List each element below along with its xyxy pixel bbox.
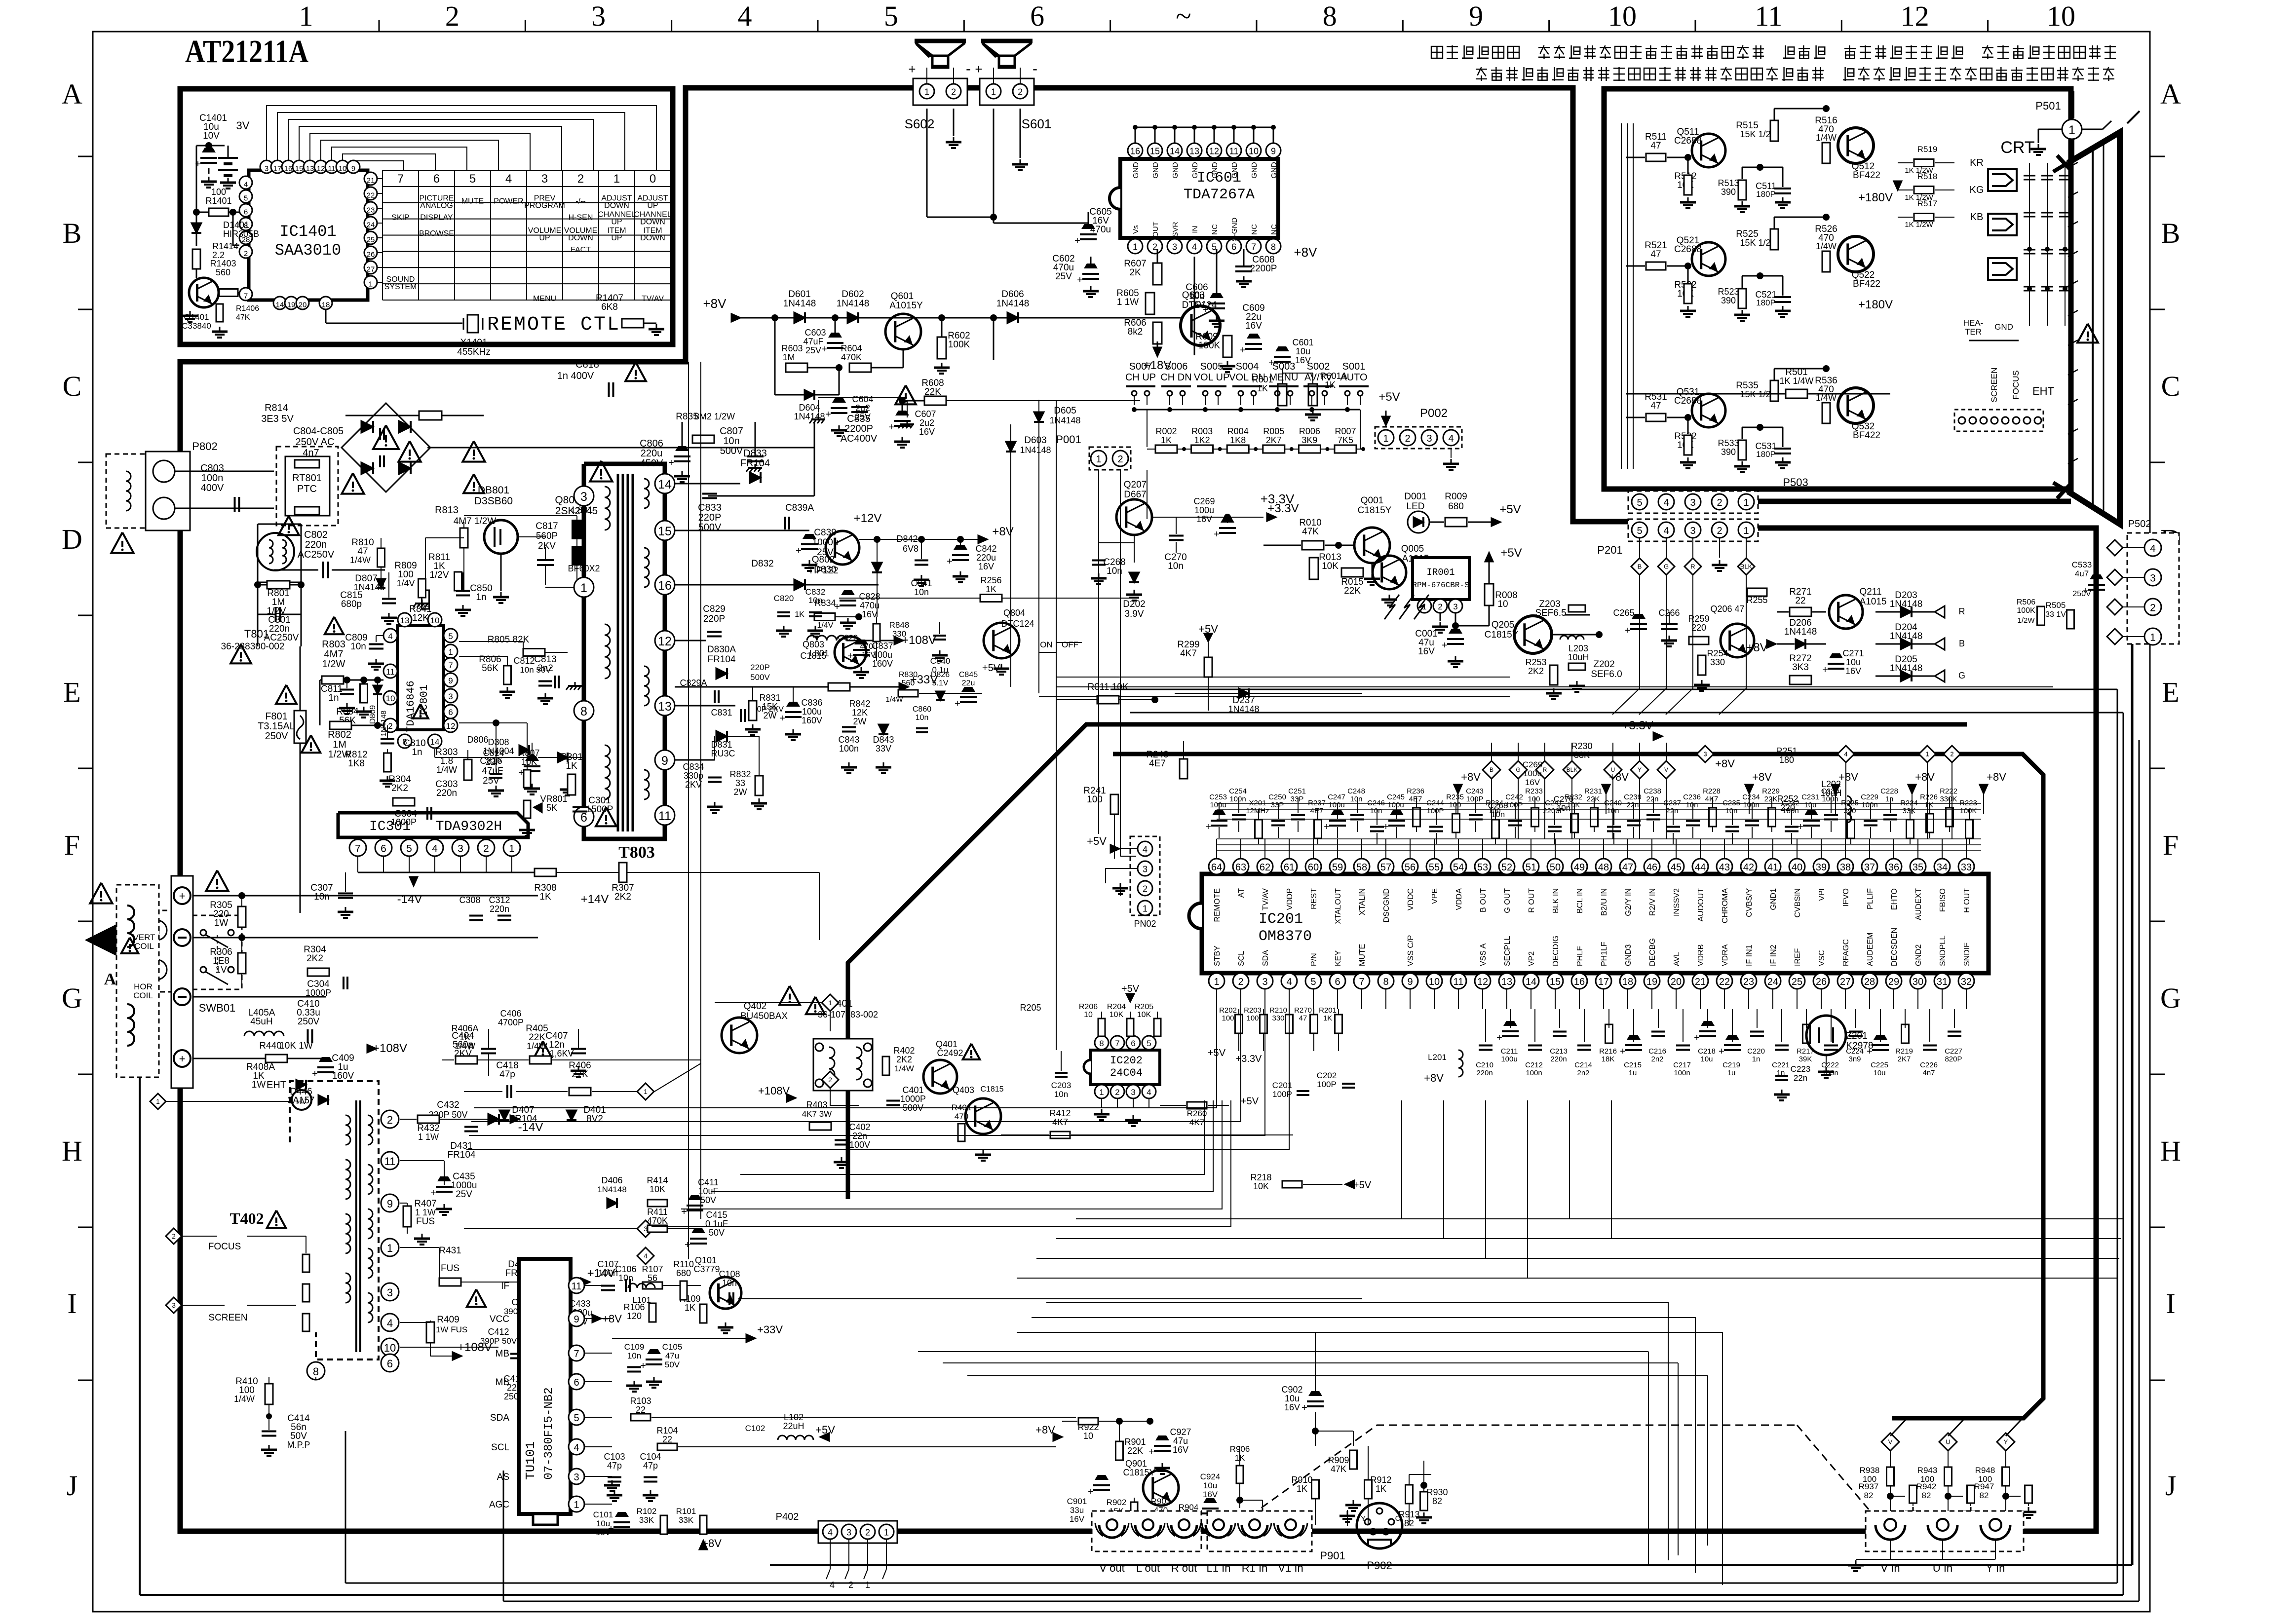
svg-text:VP2: VP2 (1528, 951, 1536, 966)
svg-text:100u: 100u (1328, 801, 1344, 809)
svg-text:10n: 10n (722, 1278, 737, 1288)
svg-text:C: C (1395, 1514, 1401, 1523)
svg-text:C412: C412 (488, 1327, 509, 1337)
svg-text:13: 13 (1189, 147, 1199, 156)
svg-text:FACT: FACT (571, 246, 591, 254)
svg-text:C253: C253 (1209, 793, 1227, 801)
svg-text:D603: D603 (1024, 435, 1046, 446)
svg-text:Q101: Q101 (695, 1255, 717, 1265)
svg-text:1K8: 1K8 (1230, 435, 1246, 445)
svg-text:FUS: FUS (416, 1216, 435, 1227)
svg-text:10: 10 (1429, 977, 1440, 987)
svg-text:4M7 1/2W: 4M7 1/2W (454, 516, 497, 527)
svg-text:48: 48 (1598, 862, 1609, 873)
svg-text:13: 13 (1501, 977, 1512, 987)
svg-text:H: H (2160, 1135, 2181, 1167)
svg-text:A1015: A1015 (1860, 597, 1887, 607)
svg-text:1: 1 (1214, 977, 1219, 987)
svg-text:BLK IN: BLK IN (1552, 888, 1560, 913)
svg-text:2: 2 (1115, 1088, 1119, 1097)
svg-text:CVBSIN: CVBSIN (1794, 888, 1802, 918)
svg-text:2: 2 (483, 843, 489, 855)
svg-text:R2/V IN: R2/V IN (1648, 888, 1657, 916)
svg-text:J: J (67, 1470, 78, 1502)
svg-text:+8V: +8V (1609, 771, 1629, 783)
svg-text:4700P: 4700P (498, 1018, 524, 1027)
svg-text:7: 7 (244, 292, 248, 301)
svg-text:C225: C225 (1871, 1061, 1888, 1069)
svg-text:R930: R930 (1426, 1487, 1448, 1497)
svg-text:R007: R007 (1335, 426, 1356, 436)
svg-text:S601: S601 (1022, 116, 1052, 131)
svg-text:D806: D806 (467, 735, 488, 745)
svg-text:1000P: 1000P (391, 817, 417, 827)
svg-text:TDA9302H: TDA9302H (436, 819, 502, 834)
svg-text:1n: 1n (1752, 1055, 1760, 1063)
svg-text:DECDIG: DECDIG (1552, 936, 1560, 966)
svg-text:S003: S003 (1272, 361, 1296, 372)
svg-text:100u: 100u (1501, 1055, 1517, 1063)
svg-text:2200P: 2200P (1250, 264, 1277, 274)
svg-text:C105: C105 (662, 1342, 683, 1352)
svg-text:8V2: 8V2 (586, 1114, 603, 1124)
svg-text:SCREEN: SCREEN (1990, 368, 1999, 403)
svg-text:1 1W: 1 1W (418, 1132, 439, 1142)
svg-text:100P: 100P (1505, 801, 1523, 809)
svg-text:DOWN: DOWN (640, 234, 665, 242)
svg-text:D601: D601 (788, 289, 810, 300)
svg-text:1/4W: 1/4W (436, 765, 457, 775)
svg-text:560: 560 (216, 267, 230, 277)
svg-text:2K2: 2K2 (391, 783, 408, 793)
svg-text:3: 3 (2150, 573, 2156, 584)
svg-text:P001: P001 (1056, 433, 1081, 446)
svg-text:VSS C/P: VSS C/P (1407, 935, 1415, 966)
svg-text:2K2: 2K2 (614, 892, 631, 902)
svg-text:C804-C805: C804-C805 (293, 426, 344, 437)
svg-text:24: 24 (367, 221, 375, 229)
svg-text:V In: V In (1880, 1562, 1900, 1574)
svg-text:100K: 100K (2017, 606, 2035, 615)
svg-text:50V: 50V (665, 1360, 680, 1369)
svg-text:BLK: BLK (1740, 563, 1753, 570)
svg-text:1u: 1u (1727, 1069, 1736, 1077)
svg-text:2W: 2W (853, 717, 867, 726)
svg-text:VSS A: VSS A (1479, 943, 1488, 966)
svg-text:220u: 220u (641, 448, 663, 459)
svg-text:1K: 1K (539, 892, 551, 902)
svg-text:12MHz: 12MHz (1246, 807, 1269, 815)
svg-text:47u: 47u (1173, 1436, 1188, 1446)
svg-text:22K: 22K (1127, 1446, 1143, 1456)
svg-text:1: 1 (613, 172, 620, 186)
svg-text:SNDPLL: SNDPLL (1939, 936, 1947, 966)
svg-text:+5V: +5V (1378, 390, 1400, 404)
svg-text:+: + (681, 1207, 687, 1217)
svg-text:220n: 220n (436, 788, 457, 798)
svg-text:11: 11 (658, 809, 671, 823)
svg-text:22K: 22K (1764, 795, 1778, 803)
svg-text:HV: HV (296, 1097, 307, 1106)
svg-text:680p: 680p (341, 599, 362, 609)
svg-text:GND1: GND1 (1769, 888, 1778, 910)
svg-text:180: 180 (1779, 755, 1794, 765)
svg-text:AGC: AGC (489, 1500, 509, 1510)
svg-text:1: 1 (1925, 751, 1929, 758)
svg-text:33: 33 (735, 778, 745, 788)
svg-text:+: + (1205, 822, 1211, 832)
svg-text:33 1V: 33 1V (2045, 610, 2066, 619)
svg-text:HOR: HOR (134, 982, 153, 991)
svg-text:R256: R256 (980, 575, 1001, 585)
svg-text:+5V: +5V (1087, 835, 1107, 847)
svg-text:22K: 22K (1344, 586, 1361, 596)
svg-text:1K2: 1K2 (1194, 435, 1210, 445)
svg-text:7K5: 7K5 (1338, 435, 1353, 445)
svg-text:VOL DN: VOL DN (1229, 372, 1265, 383)
svg-text:10K 1W: 10K 1W (279, 1041, 313, 1051)
svg-text:4n7: 4n7 (1922, 1069, 1935, 1077)
svg-text:470: 470 (955, 1112, 968, 1121)
svg-text:33K: 33K (1574, 750, 1590, 760)
svg-text:16: 16 (658, 579, 672, 593)
svg-text:10n: 10n (1350, 795, 1362, 803)
svg-text:G: G (1516, 766, 1520, 773)
svg-text:16: 16 (284, 165, 293, 173)
svg-text:3: 3 (1131, 1088, 1135, 1097)
svg-text:12: 12 (446, 721, 456, 731)
svg-text:C601: C601 (1292, 338, 1313, 347)
svg-text:+: + (1620, 1046, 1626, 1057)
svg-text:PH1LF: PH1LF (1600, 942, 1608, 966)
svg-text:C270: C270 (1554, 794, 1574, 804)
svg-text:47p: 47p (643, 1461, 658, 1471)
svg-text:PLLIF: PLLIF (1866, 888, 1875, 909)
svg-text:-: - (1033, 61, 1037, 77)
svg-text:1n: 1n (328, 693, 339, 703)
svg-text:R814: R814 (265, 403, 288, 414)
svg-text:+5V: +5V (1499, 503, 1521, 516)
svg-text:1: 1 (2068, 123, 2075, 137)
svg-text:TU101: TU101 (523, 1441, 538, 1480)
svg-text:HEA-: HEA- (1963, 318, 1984, 328)
svg-text:C836: C836 (801, 698, 822, 708)
svg-text:160V: 160V (802, 716, 822, 725)
svg-text:10n: 10n (808, 596, 822, 605)
svg-text:R523: R523 (1718, 287, 1739, 297)
svg-text:3: 3 (591, 0, 606, 32)
svg-text:D406: D406 (601, 1175, 622, 1185)
svg-text:P503: P503 (1783, 476, 1808, 489)
svg-text:+: + (825, 409, 831, 420)
svg-text:1: 1 (299, 0, 313, 32)
svg-text:+33V: +33V (757, 1323, 783, 1336)
svg-text:4E7: 4E7 (1310, 807, 1324, 815)
svg-text:C432: C432 (437, 1100, 459, 1110)
svg-text:G: G (2160, 982, 2181, 1014)
svg-text:4K7: 4K7 (1705, 795, 1719, 803)
svg-text:R204: R204 (1107, 1003, 1126, 1011)
svg-text:4: 4 (1192, 242, 1197, 252)
svg-text:47: 47 (1650, 141, 1661, 151)
svg-text:D602: D602 (842, 289, 864, 300)
svg-text:10uH: 10uH (1820, 788, 1841, 798)
svg-text:C1815Y: C1815Y (1123, 1468, 1155, 1477)
svg-text:47uF: 47uF (803, 337, 823, 346)
svg-text:C401: C401 (902, 1085, 923, 1095)
svg-text:P201: P201 (1597, 544, 1622, 556)
svg-text:R228: R228 (1703, 787, 1721, 795)
svg-text:50V: 50V (709, 1228, 725, 1238)
svg-text:1/2W: 1/2W (2017, 616, 2035, 625)
svg-text:3: 3 (580, 490, 587, 504)
svg-text:C802: C802 (304, 529, 328, 540)
svg-text:10u: 10u (1873, 1069, 1885, 1077)
svg-text:38: 38 (1840, 862, 1851, 873)
svg-text:15: 15 (658, 525, 672, 538)
svg-text:1/4W: 1/4W (455, 1041, 475, 1051)
svg-text:33K: 33K (679, 1515, 694, 1525)
svg-text:22P: 22P (486, 757, 501, 767)
svg-text:S005: S005 (1200, 361, 1224, 372)
svg-text:16V: 16V (919, 427, 935, 437)
svg-text:64: 64 (1211, 862, 1222, 873)
svg-text:47: 47 (1622, 862, 1633, 873)
svg-text:29: 29 (1888, 977, 1899, 987)
svg-text:52: 52 (1501, 862, 1512, 873)
svg-text:VDDC: VDDC (1407, 888, 1415, 910)
svg-text:10: 10 (339, 165, 347, 173)
svg-text:+: + (1148, 1447, 1154, 1458)
svg-text:R101: R101 (676, 1507, 696, 1516)
svg-text:10u: 10u (1846, 657, 1861, 667)
svg-text:+8V: +8V (703, 296, 727, 311)
svg-text:B: B (1638, 563, 1642, 570)
svg-text:R901: R901 (1124, 1437, 1146, 1447)
svg-text:C109: C109 (624, 1342, 645, 1352)
svg-text:21: 21 (1695, 977, 1706, 987)
svg-text:C227: C227 (1945, 1047, 1962, 1056)
svg-text:47K: 47K (1331, 1464, 1346, 1474)
svg-text:R205: R205 (1135, 1003, 1153, 1011)
svg-text:UP: UP (539, 234, 550, 242)
svg-text:1/4W: 1/4W (234, 1394, 255, 1404)
svg-text:MUTE: MUTE (461, 197, 484, 205)
svg-text:11: 11 (1454, 977, 1464, 987)
svg-text:3: 3 (387, 1286, 393, 1299)
svg-text:DOWN: DOWN (640, 218, 665, 226)
svg-text:A1015Y: A1015Y (889, 301, 923, 311)
svg-text:SECPLL: SECPLL (1503, 936, 1512, 966)
svg-text:MUTE: MUTE (1358, 944, 1367, 966)
svg-text:2: 2 (1405, 433, 1410, 444)
svg-text:16V: 16V (1525, 778, 1540, 787)
svg-text:4: 4 (388, 632, 392, 641)
svg-text:6: 6 (381, 843, 386, 855)
svg-text:-14V: -14V (397, 893, 422, 906)
svg-text:P402: P402 (776, 1511, 799, 1522)
svg-text:82: 82 (1864, 1491, 1874, 1500)
svg-text:16V: 16V (1173, 1445, 1188, 1455)
svg-text:PTC: PTC (297, 484, 317, 494)
svg-text:C820: C820 (774, 594, 794, 603)
svg-text:22u: 22u (962, 679, 975, 687)
svg-text:3: 3 (1690, 526, 1695, 536)
svg-text:UP: UP (647, 201, 658, 210)
svg-text:C212: C212 (1525, 1061, 1543, 1069)
svg-text:26: 26 (1816, 977, 1827, 987)
svg-text:C839A: C839A (785, 503, 814, 513)
svg-text:+: + (685, 1240, 690, 1250)
svg-text:2: 2 (951, 87, 956, 97)
svg-text:4: 4 (1844, 751, 1847, 758)
svg-text:R813: R813 (435, 505, 459, 516)
svg-text:220P: 220P (750, 663, 770, 672)
svg-text:R506: R506 (2017, 598, 2035, 606)
svg-text:C219: C219 (1722, 1061, 1740, 1069)
svg-text:+: + (975, 62, 982, 76)
svg-text:AUDOUT: AUDOUT (1697, 888, 1705, 922)
svg-text:AT: AT (1237, 888, 1246, 898)
svg-text:+: + (1214, 529, 1220, 540)
svg-text:VPI: VPI (1818, 888, 1826, 901)
svg-text:2: 2 (172, 1232, 176, 1240)
svg-text:1N4148: 1N4148 (597, 1185, 627, 1194)
svg-text:R222: R222 (1940, 787, 1957, 795)
svg-text:100n: 100n (1526, 1069, 1542, 1077)
svg-text:XTALOUT: XTALOUT (1334, 888, 1342, 924)
svg-text:C250: C250 (1268, 793, 1286, 801)
svg-text:C102: C102 (745, 1424, 765, 1433)
svg-text:CRT: CRT (2000, 138, 2034, 157)
svg-text:+: + (179, 890, 186, 902)
svg-text:C214: C214 (1574, 1061, 1592, 1069)
svg-text:22uH: 22uH (783, 1421, 804, 1431)
svg-text:27: 27 (367, 265, 375, 274)
svg-text:19: 19 (1646, 977, 1657, 987)
svg-text:+: + (1719, 1046, 1724, 1057)
svg-text:C402: C402 (849, 1122, 870, 1132)
svg-text:R1406: R1406 (236, 304, 259, 313)
svg-text:33u: 33u (1070, 1506, 1084, 1515)
svg-text:KB: KB (1970, 212, 1984, 223)
svg-text:NC: NC (1270, 224, 1278, 235)
svg-text:7: 7 (355, 843, 361, 855)
svg-text:10n 50V: 10n 50V (520, 665, 551, 675)
svg-text:C213: C213 (1550, 1047, 1568, 1056)
svg-text:250V: 250V (265, 731, 288, 742)
svg-text:R830: R830 (899, 671, 918, 679)
svg-text:T3.15AL: T3.15AL (258, 721, 295, 732)
svg-text:R206: R206 (1079, 1003, 1098, 1011)
svg-text:82: 82 (1980, 1491, 1989, 1500)
svg-text:UP: UP (611, 218, 622, 226)
svg-text:NC: NC (1211, 224, 1219, 235)
svg-text:R219: R219 (1895, 1047, 1913, 1056)
svg-text:TDA16846: TDA16846 (405, 680, 417, 733)
svg-text:L1 In: L1 In (1207, 1562, 1231, 1574)
svg-text:1K: 1K (1376, 1484, 1386, 1494)
svg-text:VDDA: VDDA (1455, 888, 1463, 910)
svg-text:+8V: +8V (1294, 245, 1318, 260)
svg-text:13: 13 (306, 165, 314, 173)
svg-text:+3.3V: +3.3V (1261, 491, 1295, 506)
svg-text:10n: 10n (350, 642, 366, 652)
svg-text:KR: KR (1970, 157, 1984, 168)
svg-text:H: H (62, 1135, 82, 1167)
svg-text:12K: 12K (852, 708, 868, 717)
svg-text:10: 10 (386, 694, 395, 703)
svg-text:39: 39 (1816, 862, 1827, 873)
svg-text:C238: C238 (1644, 787, 1661, 795)
svg-text:VERT: VERT (133, 933, 155, 942)
svg-text:C269: C269 (1193, 496, 1215, 506)
svg-text:5: 5 (1637, 526, 1642, 536)
svg-text:1N4148: 1N4148 (1049, 415, 1080, 425)
svg-text:12: 12 (317, 165, 325, 173)
svg-text:12: 12 (658, 635, 672, 648)
svg-text:BF422: BF422 (1853, 279, 1880, 289)
svg-text:TIP122: TIP122 (808, 566, 838, 576)
svg-text:GND3: GND3 (1624, 944, 1633, 966)
svg-text:Y: Y (1361, 1514, 1366, 1523)
svg-text:0: 0 (650, 172, 656, 186)
svg-text:1u: 1u (1629, 1069, 1637, 1077)
svg-text:8k2: 8k2 (1128, 327, 1143, 337)
svg-text:C842: C842 (975, 544, 996, 554)
svg-text:C254: C254 (1229, 787, 1247, 795)
svg-text:I: I (2166, 1287, 2175, 1320)
svg-text:SYSTEM: SYSTEM (384, 283, 417, 291)
svg-text:1K8: 1K8 (348, 758, 365, 769)
svg-text:L202: L202 (1821, 779, 1841, 789)
svg-text:1000P: 1000P (900, 1094, 926, 1104)
svg-text:4: 4 (505, 172, 512, 186)
svg-text:C603: C603 (804, 328, 826, 338)
svg-text:6: 6 (387, 1358, 393, 1370)
svg-text:1K: 1K (566, 761, 577, 771)
svg-text:5: 5 (1637, 497, 1642, 508)
svg-text:82: 82 (1922, 1491, 1931, 1500)
svg-text:180P: 180P (1756, 189, 1776, 199)
svg-text:C101: C101 (593, 1510, 613, 1519)
svg-text:1: 1 (1743, 526, 1749, 536)
svg-text:+8V: +8V (1915, 771, 1935, 783)
svg-text:34: 34 (1937, 862, 1948, 873)
svg-text:R251: R251 (1776, 746, 1797, 756)
svg-text:4: 4 (244, 181, 248, 189)
svg-text:R002: R002 (1155, 426, 1177, 436)
svg-text:8: 8 (1323, 0, 1337, 32)
svg-text:R910: R910 (1291, 1475, 1312, 1485)
svg-text:C902: C902 (1281, 1385, 1302, 1395)
svg-text:19: 19 (287, 301, 296, 309)
svg-text:2: 2 (445, 0, 459, 32)
svg-text:+5V: +5V (1500, 546, 1522, 560)
svg-text:+14V: +14V (581, 893, 609, 906)
svg-text:22n: 22n (1666, 807, 1678, 815)
svg-text:+: + (179, 1053, 186, 1065)
svg-text:330K: 330K (1940, 795, 1957, 803)
svg-text:10n: 10n (627, 1351, 641, 1360)
svg-text:46: 46 (1646, 862, 1657, 873)
svg-text:F: F (64, 829, 80, 861)
svg-text:3: 3 (1703, 751, 1707, 758)
svg-text:15: 15 (1550, 977, 1561, 987)
svg-text:DTC124: DTC124 (1182, 300, 1217, 310)
svg-text:SNDIF: SNDIF (1963, 943, 1971, 966)
svg-text:C818: C818 (575, 359, 599, 370)
